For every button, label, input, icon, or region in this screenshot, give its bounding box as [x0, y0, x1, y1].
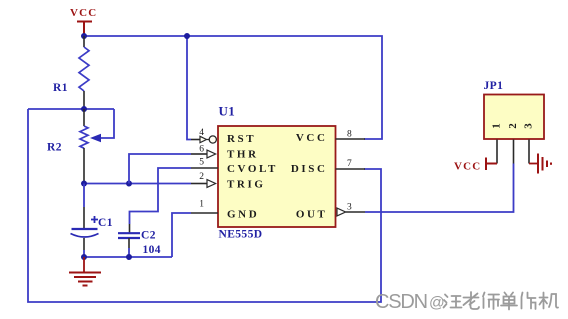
svg-text:OUT: OUT	[296, 209, 328, 221]
svg-text:C2: C2	[141, 230, 156, 242]
svg-text:5: 5	[199, 158, 204, 168]
wire OUT to JP1 pin2	[365, 164, 514, 213]
svg-text:VCC: VCC	[296, 132, 328, 144]
node junction C1 ground	[81, 254, 87, 260]
wire ground rail	[84, 256, 172, 258]
wire CVOLT to C2	[130, 168, 192, 224]
svg-text:4: 4	[199, 128, 204, 138]
node junction TRIG/C1	[81, 181, 87, 187]
svg-text:7: 7	[347, 159, 352, 169]
svg-text:1: 1	[491, 123, 503, 129]
pin 3 OUT lead	[337, 203, 365, 216]
char pian	[522, 293, 536, 310]
svg-text:CVOLT: CVOLT	[227, 163, 278, 175]
node junction at VCC rail	[81, 33, 87, 39]
svg-text:DISC: DISC	[291, 163, 328, 175]
R2 wiper arrow	[90, 134, 101, 142]
wire GND pin branch	[172, 213, 191, 257]
node junction RST branch	[184, 33, 190, 39]
node junction THR/TRIG	[126, 181, 132, 187]
svg-text:THR: THR	[227, 149, 259, 161]
svg-text:2: 2	[507, 123, 519, 129]
ground symbol	[69, 257, 101, 286]
JP1 pin 2 lead	[513, 140, 515, 164]
wire THR branch	[129, 154, 191, 184]
capacitor C2	[118, 224, 161, 257]
svg-text:3: 3	[523, 123, 535, 129]
wire R1/R2 junction line	[28, 108, 114, 110]
wire top rail VCC to pin8	[84, 36, 382, 139]
svg-text:@: @	[429, 295, 445, 312]
svg-text:1: 1	[199, 200, 204, 210]
pin 6 THR lead	[191, 145, 216, 158]
power port VCC (at JP1)	[454, 158, 497, 173]
svg-text:NE555D: NE555D	[219, 229, 263, 241]
svg-text:VCC: VCC	[70, 7, 97, 19]
svg-text:R2: R2	[47, 142, 62, 154]
char wang	[444, 295, 462, 308]
capacitor C1	[71, 184, 113, 258]
svg-text:C1: C1	[98, 217, 113, 229]
pin 7 DISC lead	[336, 159, 366, 169]
svg-text:U1: U1	[219, 104, 236, 119]
pin 5 CVOLT lead	[191, 158, 218, 169]
svg-text:2: 2	[199, 172, 204, 182]
potentiometer R2	[47, 109, 88, 184]
svg-text:VCC: VCC	[454, 161, 481, 173]
svg-text:6: 6	[199, 145, 204, 155]
pin 4 RST lead	[191, 128, 216, 143]
pin 2 TRIG lead	[191, 172, 216, 187]
node junction R1-R2	[81, 106, 87, 112]
wire R2 wiper loop	[100, 109, 114, 138]
ground symbol (at JP1, rotated)	[529, 154, 551, 174]
char ji	[540, 293, 559, 309]
svg-text:104: 104	[143, 244, 161, 256]
node junction C2 ground	[126, 254, 132, 260]
op-amp U1 NE555D body	[218, 126, 336, 227]
power port VCC (top left)	[70, 7, 97, 36]
resistor R1	[53, 36, 89, 109]
wire RST branch	[187, 36, 191, 140]
wire left loop to bottom to DISC	[28, 109, 381, 302]
char dan	[501, 293, 517, 310]
watermark chinese glyph strokes	[444, 292, 559, 310]
svg-text:JP1: JP1	[484, 80, 504, 92]
pin 8 VCC lead	[336, 130, 366, 140]
svg-text:CSDN: CSDN	[375, 291, 427, 313]
char shi	[483, 293, 499, 310]
JP1 pin 3 lead	[528, 140, 530, 164]
svg-text:R1: R1	[53, 82, 68, 94]
svg-text:8: 8	[347, 130, 352, 140]
wire TRIG line	[84, 183, 191, 185]
connector JP1 body	[484, 95, 544, 140]
char lao	[464, 292, 480, 309]
svg-text:TRIG: TRIG	[227, 179, 266, 191]
svg-text:GND: GND	[227, 209, 259, 221]
svg-text:3: 3	[347, 203, 352, 213]
JP1 pin 1 lead	[496, 140, 498, 164]
pin 1 GND lead	[191, 200, 218, 214]
svg-text:RST: RST	[227, 133, 256, 145]
